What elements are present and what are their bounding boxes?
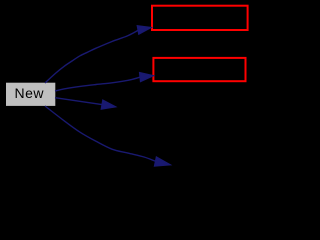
edge New to hidden node 3: [55, 98, 116, 110]
edge New to hidden node 4: [45, 106, 171, 166]
node New (grey filled): [6, 83, 55, 106]
node box2 (red bordered): [153, 58, 245, 81]
node box1 (red bordered): [152, 6, 248, 30]
svg-text:New: New: [15, 85, 45, 101]
edge New to box2: [55, 72, 154, 91]
edge New to box1: [45, 26, 152, 83]
